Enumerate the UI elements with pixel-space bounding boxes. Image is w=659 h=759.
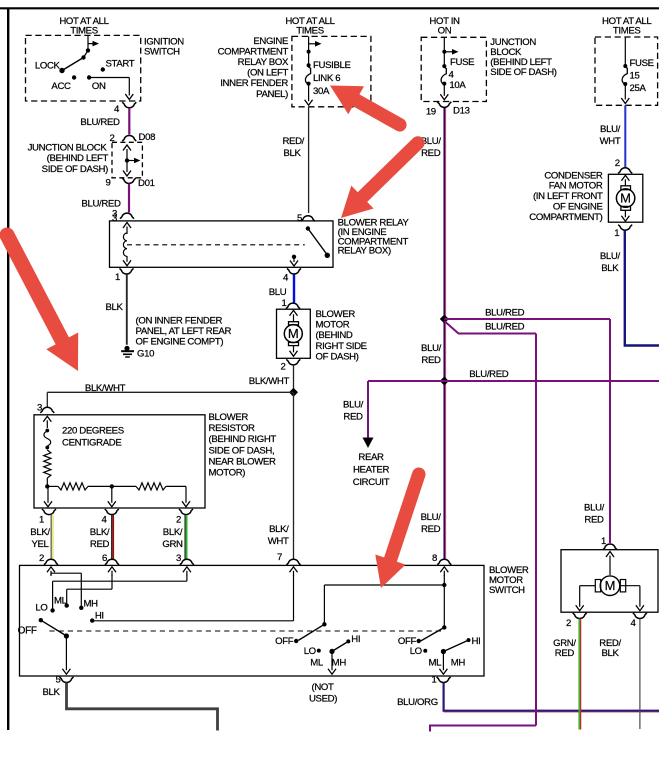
svg-text:BLU/: BLU/: [584, 502, 605, 513]
svg-text:BLK: BLK: [601, 648, 619, 659]
svg-text:2: 2: [39, 553, 44, 564]
svg-text:FUSE: FUSE: [630, 58, 654, 69]
svg-text:TIMES: TIMES: [70, 26, 98, 37]
svg-text:NEAR BLOWER: NEAR BLOWER: [209, 456, 276, 467]
svg-text:MOTOR): MOTOR): [209, 468, 246, 479]
svg-text:2: 2: [176, 514, 181, 525]
svg-text:30A: 30A: [313, 86, 330, 97]
svg-text:TIMES: TIMES: [613, 26, 641, 37]
svg-text:(BEHIND RIGHT: (BEHIND RIGHT: [209, 434, 277, 445]
svg-text:BLK: BLK: [42, 687, 60, 698]
svg-text:PANEL): PANEL): [256, 89, 288, 100]
svg-text:2: 2: [566, 618, 571, 629]
svg-text:BLK/WHT: BLK/WHT: [249, 376, 290, 387]
svg-text:RED: RED: [555, 648, 575, 659]
svg-text:1: 1: [115, 272, 120, 283]
svg-text:MH: MH: [332, 657, 347, 668]
svg-text:PANEL, AT LEFT REAR: PANEL, AT LEFT REAR: [136, 326, 232, 337]
svg-text:SWITCH: SWITCH: [144, 47, 180, 58]
svg-text:RED: RED: [421, 355, 441, 366]
svg-text:START: START: [106, 59, 135, 70]
svg-text:FUSE: FUSE: [450, 57, 474, 68]
svg-text:220 DEGREES: 220 DEGREES: [62, 426, 124, 437]
svg-text:MH: MH: [83, 598, 98, 609]
svg-text:5: 5: [56, 675, 61, 686]
svg-text:LOCK: LOCK: [35, 61, 61, 72]
svg-text:BLU: BLU: [269, 287, 287, 298]
svg-text:JUNCTION BLOCK: JUNCTION BLOCK: [28, 143, 108, 154]
svg-text:MOTOR: MOTOR: [316, 320, 350, 331]
svg-text:BLU/RED: BLU/RED: [80, 117, 120, 128]
svg-text:BLU/: BLU/: [343, 400, 364, 411]
svg-text:D01: D01: [138, 178, 155, 189]
svg-text:GRN: GRN: [162, 539, 183, 550]
svg-text:BLU/ORG: BLU/ORG: [397, 697, 438, 708]
svg-text:RIGHT SIDE: RIGHT SIDE: [316, 341, 367, 352]
svg-text:SIDE OF DASH,: SIDE OF DASH,: [209, 445, 275, 456]
svg-text:HI: HI: [95, 610, 104, 621]
svg-text:1: 1: [614, 228, 619, 239]
svg-text:1: 1: [39, 514, 44, 525]
svg-text:RED: RED: [343, 412, 363, 423]
svg-text:3: 3: [176, 553, 181, 564]
svg-text:M: M: [288, 326, 299, 341]
svg-text:25A: 25A: [630, 83, 647, 94]
svg-text:SWITCH: SWITCH: [489, 585, 525, 596]
svg-text:ACC: ACC: [51, 81, 71, 92]
svg-text:YEL: YEL: [31, 539, 49, 550]
svg-text:BLK/: BLK/: [90, 527, 110, 538]
svg-text:BLK: BLK: [601, 263, 619, 274]
svg-text:5: 5: [297, 213, 302, 224]
svg-text:LO: LO: [304, 646, 316, 657]
svg-text:RED: RED: [584, 514, 604, 525]
svg-text:(BEHIND LEFT: (BEHIND LEFT: [47, 153, 109, 164]
svg-text:HI: HI: [351, 634, 360, 645]
svg-text:MH: MH: [451, 657, 466, 668]
svg-text:LO: LO: [410, 646, 422, 657]
svg-text:6: 6: [102, 553, 107, 564]
svg-text:D08: D08: [139, 132, 156, 143]
svg-text:3: 3: [112, 213, 117, 224]
svg-text:HI: HI: [472, 636, 481, 647]
svg-text:10A: 10A: [449, 80, 466, 91]
svg-text:M: M: [620, 191, 631, 206]
svg-text:19: 19: [426, 107, 436, 118]
svg-text:RED/: RED/: [282, 136, 304, 147]
svg-text:CENTIGRADE: CENTIGRADE: [62, 438, 121, 449]
svg-text:SIDE OF DASH): SIDE OF DASH): [490, 67, 556, 78]
svg-text:CIRCUIT: CIRCUIT: [353, 477, 390, 488]
svg-text:INNER FENDER: INNER FENDER: [220, 78, 288, 89]
svg-text:BLU/: BLU/: [421, 512, 442, 523]
svg-text:TIMES: TIMES: [296, 26, 324, 37]
svg-text:M: M: [605, 578, 616, 593]
svg-text:2: 2: [615, 158, 620, 169]
svg-text:LO: LO: [35, 602, 47, 613]
svg-text:RED: RED: [421, 524, 441, 535]
svg-text:2: 2: [281, 362, 286, 373]
svg-text:BLU/RED: BLU/RED: [485, 322, 525, 333]
svg-text:BLU/: BLU/: [600, 251, 621, 262]
svg-text:D13: D13: [453, 106, 470, 117]
svg-text:BLU/RED: BLU/RED: [469, 369, 509, 380]
svg-text:(NOT: (NOT: [311, 682, 334, 693]
svg-text:8: 8: [432, 553, 437, 564]
svg-text:OFF: OFF: [275, 636, 294, 647]
svg-text:WHT: WHT: [600, 136, 621, 147]
svg-text:WHT: WHT: [268, 536, 289, 547]
svg-text:OF ENGINE: OF ENGINE: [553, 202, 603, 213]
svg-text:7: 7: [277, 552, 282, 563]
svg-text:15: 15: [630, 71, 640, 82]
svg-text:ON: ON: [438, 26, 452, 37]
svg-text:RELAY BOX): RELAY BOX): [338, 245, 391, 256]
svg-text:LINK 6: LINK 6: [313, 73, 340, 84]
svg-text:BLU/RED: BLU/RED: [485, 308, 525, 319]
svg-text:FUSIBLE: FUSIBLE: [313, 60, 351, 71]
svg-text:BLK/WHT: BLK/WHT: [85, 383, 126, 394]
svg-text:ENGINE: ENGINE: [253, 36, 288, 47]
svg-text:OFF: OFF: [18, 625, 37, 636]
svg-text:BLK: BLK: [105, 302, 123, 313]
svg-text:OF DASH): OF DASH): [316, 352, 359, 363]
svg-text:USED): USED): [309, 694, 337, 705]
svg-text:REAR: REAR: [358, 452, 384, 463]
svg-text:ON: ON: [92, 81, 106, 92]
svg-text:BLK/: BLK/: [163, 527, 183, 538]
svg-text:RELAY BOX: RELAY BOX: [238, 57, 289, 68]
svg-text:1: 1: [282, 298, 287, 309]
svg-text:(ON LEFT: (ON LEFT: [247, 67, 288, 78]
svg-text:BLU/: BLU/: [421, 343, 442, 354]
svg-text:ML: ML: [54, 595, 68, 606]
svg-text:G10: G10: [137, 349, 154, 360]
svg-text:9: 9: [106, 178, 111, 189]
svg-text:RED: RED: [90, 539, 110, 550]
svg-text:(BEHIND: (BEHIND: [316, 330, 353, 341]
svg-text:1: 1: [432, 675, 437, 686]
svg-text:ML: ML: [428, 658, 442, 669]
svg-text:ML: ML: [310, 657, 324, 668]
svg-text:CONDENSER: CONDENSER: [544, 170, 603, 181]
svg-text:BLK/: BLK/: [30, 527, 50, 538]
svg-text:BLK: BLK: [283, 148, 301, 159]
svg-text:BLOWER: BLOWER: [209, 412, 249, 423]
svg-text:RED: RED: [421, 148, 441, 159]
svg-text:BLU/: BLU/: [600, 124, 621, 135]
svg-text:SIDE OF DASH): SIDE OF DASH): [42, 164, 108, 175]
svg-text:(IN LEFT FRONT: (IN LEFT FRONT: [533, 191, 603, 202]
svg-text:HEATER: HEATER: [353, 465, 390, 476]
svg-text:BLOWER: BLOWER: [316, 309, 356, 320]
svg-text:RESISTOR: RESISTOR: [209, 423, 255, 434]
svg-text:COMPARTMENT): COMPARTMENT): [529, 212, 602, 223]
svg-text:BLK/: BLK/: [269, 524, 289, 535]
svg-text:OF ENGINE COMPT): OF ENGINE COMPT): [136, 337, 224, 348]
